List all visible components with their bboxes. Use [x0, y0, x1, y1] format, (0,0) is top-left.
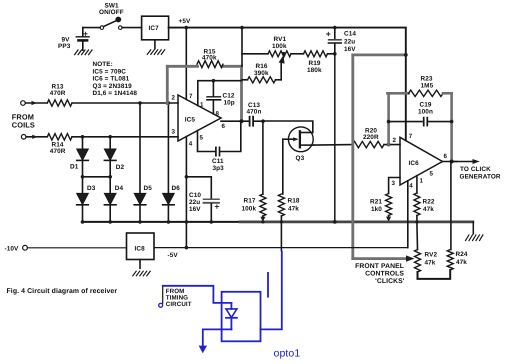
svg-text:D1,6 = 1N4148: D1,6 = 1N4148	[93, 90, 138, 97]
ground (IC8)	[133, 260, 150, 276]
wire input to R14	[26, 136, 47, 138]
svg-text:'CLICKS': 'CLICKS'	[375, 278, 405, 285]
wire RV1 branch	[242, 28, 268, 54]
wire IC6 pin3 to R21	[389, 178, 400, 194]
diode D1	[77, 137, 89, 177]
opto1 package	[222, 292, 261, 342]
svg-text:3: 3	[172, 129, 176, 136]
wire battery to SW1	[83, 27, 100, 29]
ground (IC7)	[147, 40, 164, 55]
svg-text:3: 3	[392, 180, 396, 187]
capacitor C19	[389, 118, 452, 126]
diode D2	[104, 137, 116, 177]
ground (battery)	[75, 50, 92, 55]
svg-text:16V: 16V	[344, 46, 356, 53]
svg-text:-5V: -5V	[168, 252, 179, 259]
wire C13 to Q3 drain	[263, 121, 313, 133]
svg-text:NOTE:: NOTE:	[93, 61, 113, 68]
svg-text:7: 7	[409, 133, 413, 140]
svg-text:2: 2	[172, 94, 176, 101]
node D5 top	[138, 101, 142, 105]
capacitor C12	[207, 81, 221, 114]
svg-text:R18: R18	[288, 197, 300, 204]
wire RV1 to R19	[291, 53, 304, 55]
svg-text:4: 4	[409, 183, 413, 190]
transistor Q3 (2N3819)	[283, 127, 314, 152]
resistor R13	[47, 100, 72, 106]
svg-text:opto1: opto1	[274, 348, 301, 360]
capacitor C13	[250, 117, 263, 126]
ground rail (bottom)	[83, 221, 241, 223]
svg-text:100k: 100k	[272, 43, 287, 50]
svg-text:R23: R23	[421, 75, 433, 82]
wire RV2/R24 bottom bracket	[418, 270, 451, 279]
feedback wire R23 left	[387, 93, 390, 144]
wire IC5 output	[221, 120, 249, 122]
resistor R15	[197, 61, 223, 68]
svg-text:390k: 390k	[254, 70, 269, 77]
svg-text:D4: D4	[115, 185, 124, 192]
svg-text:5: 5	[200, 134, 204, 141]
node D1 top	[81, 135, 85, 139]
wire +5V rail	[169, 28, 406, 141]
junction D6/rail	[167, 220, 171, 224]
svg-text:5: 5	[430, 170, 434, 177]
potentiometer RV2	[415, 250, 421, 273]
wire Q3 gate to R18	[282, 139, 284, 194]
node RV1/R19/C14	[333, 52, 337, 56]
node C13/R17	[261, 119, 265, 123]
diode D4	[104, 177, 116, 222]
wire -10V to IC8	[28, 247, 127, 249]
svg-text:IC8: IC8	[135, 245, 146, 252]
IC8 converter	[127, 233, 155, 260]
wire IC8 to -5V / IC6 pin4	[154, 247, 408, 249]
wire C14 node to ground rail	[334, 54, 336, 222]
node +5V	[185, 26, 189, 30]
junction D3/rail	[81, 220, 85, 224]
svg-text:R22: R22	[423, 199, 435, 206]
svg-text:8: 8	[216, 110, 220, 117]
svg-text:D3: D3	[87, 185, 96, 192]
wire R14 to IC5 pin3	[72, 136, 178, 138]
input terminal (top)	[21, 101, 26, 106]
svg-text:IC6 = TL081: IC6 = TL081	[93, 76, 130, 83]
op-amp IC5	[178, 95, 221, 141]
svg-text:D2: D2	[116, 164, 125, 171]
junction D4/rail	[108, 220, 112, 224]
wire R13 to IC5 pin2	[72, 102, 178, 104]
wire opto output	[261, 252, 282, 330]
wire IC6 pin1 to R22	[416, 176, 418, 193]
wire R22/RV2 column	[416, 222, 419, 250]
svg-text:Q3 = 2N3819: Q3 = 2N3819	[93, 83, 133, 90]
wire LED cathode to ground arrow	[203, 329, 232, 345]
node D6 top	[167, 101, 171, 105]
svg-text:4: 4	[189, 140, 193, 147]
resistor R20	[353, 141, 385, 147]
RV1 wiper	[279, 52, 286, 80]
diode D6	[163, 103, 175, 222]
svg-text:470R: 470R	[50, 90, 66, 97]
diode D3	[77, 177, 89, 222]
label FROM COILS	[12, 112, 35, 129]
wire from timing circuit	[163, 286, 232, 303]
node C14 top	[333, 26, 337, 30]
resistor R21	[386, 194, 392, 222]
svg-text:CIRCUIT: CIRCUIT	[166, 301, 192, 308]
input terminal (bottom)	[21, 135, 26, 140]
wire IC6 output	[443, 161, 458, 163]
svg-text:R24: R24	[456, 251, 468, 258]
battery 9V PP3	[76, 28, 89, 51]
resistor R18	[278, 194, 284, 251]
svg-text:RV1: RV1	[274, 36, 287, 43]
wire IC5 pin4 to -5V	[185, 137, 187, 248]
junction R22/RV2/rail	[415, 220, 418, 223]
svg-text:IC7: IC7	[149, 25, 160, 32]
svg-text:GENERATOR: GENERATOR	[460, 173, 501, 180]
svg-text:470k: 470k	[202, 55, 217, 62]
svg-text:TO CLICK: TO CLICK	[460, 166, 491, 173]
svg-text:100n: 100n	[418, 108, 433, 115]
highlight box IC5 (left edge)	[166, 66, 169, 103]
svg-text:C19: C19	[420, 101, 432, 108]
svg-text:47k: 47k	[423, 206, 434, 213]
label FROM TIMING CIRCUIT	[166, 288, 192, 308]
wire IC5 pin7 supply	[185, 28, 187, 100]
svg-text:2: 2	[393, 137, 397, 144]
diode D5	[134, 103, 146, 222]
svg-text:PP3: PP3	[58, 43, 71, 50]
svg-text:22u: 22u	[189, 199, 200, 206]
svg-text:D6: D6	[172, 185, 181, 192]
wire IC5 pin1 feedback	[198, 81, 242, 106]
opto-isolator opto1 (blue overlay)	[163, 252, 282, 354]
node RV1 branch	[240, 26, 244, 30]
svg-text:D5: D5	[144, 185, 153, 192]
svg-text:1M5: 1M5	[421, 82, 434, 89]
wire R19 to C14 node	[328, 53, 335, 55]
highlight box IC6 (top edge)	[353, 54, 406, 57]
node D2 top	[108, 135, 112, 139]
highlight arrow to RV2 (front panel)	[353, 257, 407, 260]
svg-text:10p: 10p	[224, 99, 235, 106]
resistor R23	[409, 90, 443, 96]
svg-text:C10: C10	[189, 192, 201, 199]
wire Q3 source to R20	[314, 144, 353, 147]
wire IC6 output down to R24	[450, 162, 452, 250]
resistor R17	[260, 121, 266, 221]
svg-text:R19: R19	[309, 60, 321, 67]
switch SW1	[100, 17, 122, 29]
svg-text:Q3: Q3	[296, 155, 305, 162]
highlight box IC5 (top edge)	[167, 65, 241, 68]
svg-text:6: 6	[222, 123, 226, 130]
svg-text:D1: D1	[70, 163, 79, 170]
wire opto base stub	[267, 273, 269, 297]
ground (rail right end)	[466, 235, 483, 241]
junction IC5 pin4 line/rail	[185, 220, 189, 224]
op-amp IC6	[400, 137, 443, 185]
junction R17/rail	[261, 220, 264, 223]
svg-text:Fig. 4 Circuit diagram of rece: Fig. 4 Circuit diagram of receiver	[7, 288, 118, 295]
resistor R22	[414, 193, 420, 216]
svg-text:220R: 220R	[363, 134, 379, 141]
capacitor C10	[186, 177, 219, 222]
node box/pin7	[404, 53, 408, 57]
svg-text:+5V: +5V	[179, 18, 191, 25]
junction D5/rail	[138, 220, 142, 224]
wire IC6 pin4 to -10V line	[407, 181, 409, 248]
svg-text:R17: R17	[244, 197, 256, 204]
ground arrow (blue)	[199, 346, 207, 354]
feedback wire R23 right	[443, 92, 452, 95]
potentiometer RV1	[268, 51, 291, 57]
highlight box IC5 (right edge)	[240, 66, 243, 121]
opto LED	[226, 303, 237, 330]
capacitor C11	[198, 121, 241, 155]
svg-text:FRONT PANEL: FRONT PANEL	[355, 263, 404, 270]
terminal FROM TIMING	[159, 286, 163, 308]
svg-text:IC5 = 709C: IC5 = 709C	[93, 68, 127, 75]
svg-text:22u: 22u	[344, 39, 355, 46]
svg-text:16V: 16V	[189, 206, 201, 213]
svg-text:C14: C14	[344, 30, 356, 37]
svg-text:C12: C12	[223, 92, 235, 99]
wire D1/D2 junction	[83, 176, 111, 178]
capacitor C14	[327, 28, 341, 54]
svg-text:R16: R16	[256, 63, 268, 70]
-10V terminal	[23, 245, 28, 250]
svg-text:7: 7	[189, 93, 193, 100]
arrow to click generator	[452, 161, 474, 163]
svg-text:IC6: IC6	[409, 160, 420, 167]
junction R18/rail	[280, 220, 283, 223]
svg-text:IC5: IC5	[185, 116, 196, 123]
IC7 regulator	[142, 16, 169, 40]
svg-text:470n: 470n	[247, 109, 262, 116]
resistor R19	[304, 51, 328, 57]
junction C10/rail	[210, 220, 214, 224]
svg-text:RV2: RV2	[425, 252, 438, 259]
highlight box IC6 (left edge)	[351, 55, 354, 259]
svg-text:R21: R21	[370, 199, 382, 206]
svg-text:COILS: COILS	[12, 121, 35, 130]
svg-text:1k0: 1k0	[371, 206, 382, 213]
resistor R14	[47, 134, 72, 140]
wire R20 to IC6 pin2	[384, 144, 400, 146]
svg-text:1: 1	[420, 177, 424, 184]
svg-text:ON/OFF: ON/OFF	[99, 9, 124, 16]
svg-text:470R: 470R	[50, 148, 66, 155]
resistor R16	[242, 79, 248, 81]
svg-text:47k: 47k	[456, 259, 467, 266]
svg-text:CONTROLS: CONTROLS	[365, 270, 404, 277]
svg-text:6: 6	[444, 153, 448, 160]
wire SW1 to IC7	[122, 27, 142, 29]
svg-text:100k: 100k	[242, 205, 257, 212]
IC5/IC6 pin numbers	[172, 93, 448, 190]
svg-text:1: 1	[200, 102, 204, 109]
svg-text:47k: 47k	[288, 205, 299, 212]
junction C14 branch/rail	[333, 220, 337, 224]
note block	[93, 61, 138, 97]
svg-text:C11: C11	[212, 158, 224, 165]
resistor R24	[447, 250, 453, 271]
wire input to R13	[25, 102, 47, 104]
svg-text:3p3: 3p3	[213, 165, 225, 172]
svg-text:180k: 180k	[307, 67, 322, 74]
svg-text:-10V: -10V	[5, 246, 20, 253]
svg-text:47k: 47k	[425, 259, 436, 266]
